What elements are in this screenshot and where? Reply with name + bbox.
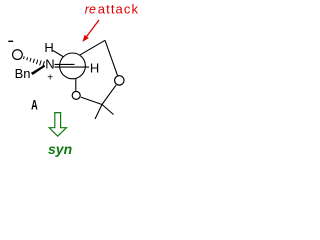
re-attack arrow bbox=[83, 20, 100, 42]
bond acetonide C to ring O left bbox=[81, 97, 102, 104]
bond ring O right to acetonide C bbox=[102, 85, 116, 105]
svg-text:A: A bbox=[31, 97, 38, 112]
bond apex CH2 to ring O right bbox=[105, 40, 118, 75]
svg-text:H: H bbox=[90, 60, 99, 75]
Newman circle (back carbon) bbox=[60, 53, 86, 79]
bond back-C to ring CH2 (apex) bbox=[80, 40, 105, 55]
label "re attack" bbox=[85, 1, 139, 16]
bond ring O left to back carbon bbox=[75, 79, 77, 91]
svg-text:+: + bbox=[47, 72, 53, 83]
ring O left bbox=[72, 91, 80, 99]
svg-text:H: H bbox=[44, 40, 53, 55]
nitrone O atom bbox=[13, 50, 23, 60]
svg-text:re: re bbox=[85, 2, 96, 16]
svg-text:Bn: Bn bbox=[15, 66, 31, 81]
svg-text:N: N bbox=[45, 56, 54, 71]
bond back-C to H bbox=[53, 51, 64, 57]
bold wedge Bn-N bbox=[31, 65, 45, 75]
svg-text:syn: syn bbox=[48, 141, 72, 157]
minus charge on O bbox=[8, 40, 13, 42]
acetonide methyl (right) bbox=[102, 105, 114, 115]
hollow down arrow bbox=[49, 113, 66, 137]
C=N double bond bbox=[55, 64, 90, 67]
hashed wedge O-N bbox=[24, 56, 45, 66]
svg-text:attack: attack bbox=[98, 1, 139, 16]
ring O right bbox=[115, 76, 124, 85]
acetonide methyl (left) bbox=[95, 105, 102, 120]
